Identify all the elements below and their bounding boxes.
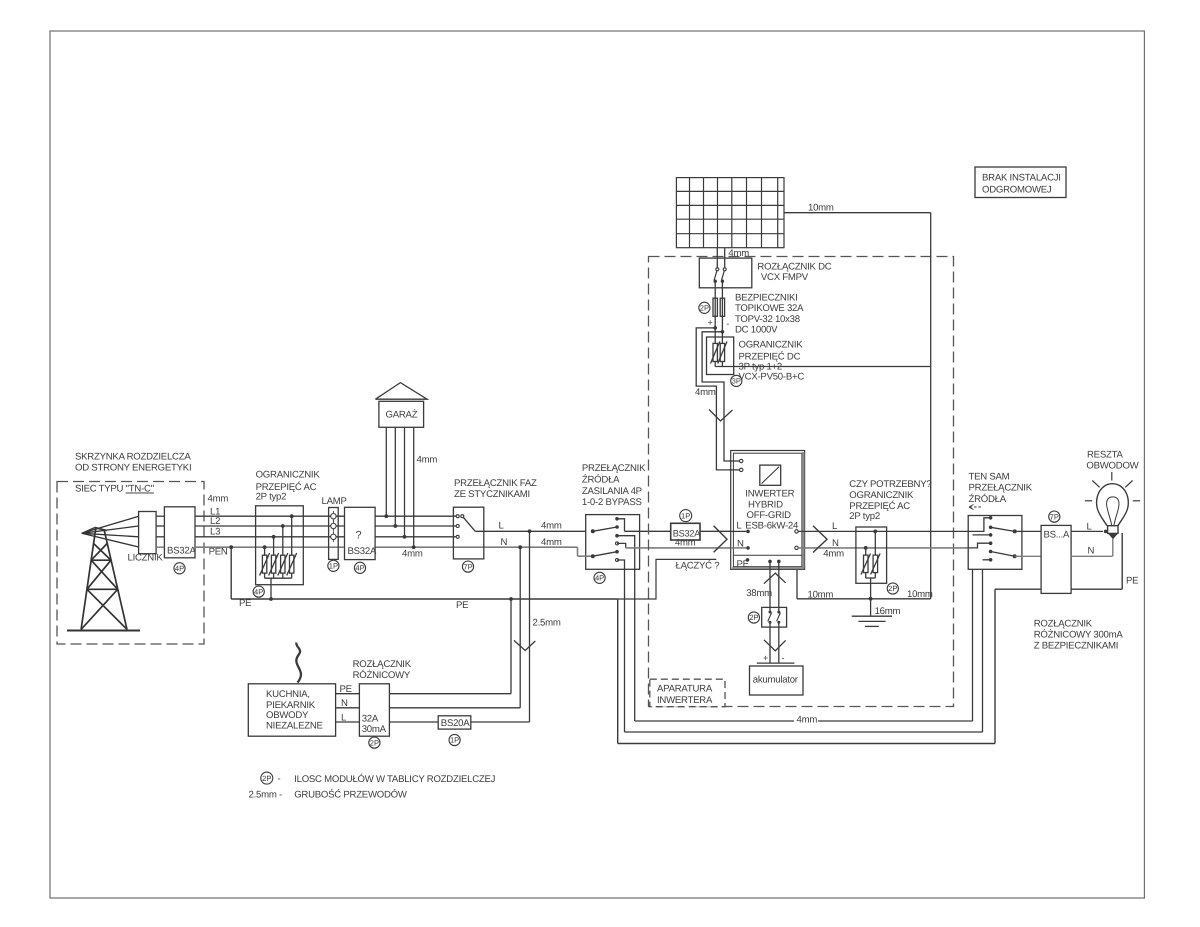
terminal L3 phase selector bbox=[456, 535, 459, 538]
overhead wires from pylon to meter bbox=[82, 516, 139, 547]
svg-text:akumulator: akumulator bbox=[753, 674, 799, 685]
svg-text:2P: 2P bbox=[700, 304, 709, 313]
svg-text:LAMP: LAMP bbox=[322, 496, 347, 507]
bulb filament bbox=[1107, 497, 1119, 526]
wire PV+ into DC SPD bbox=[714, 328, 716, 344]
svg-text:1P: 1P bbox=[681, 511, 690, 520]
svg-text:BS32A: BS32A bbox=[167, 546, 196, 557]
wire varistor common bus bbox=[265, 577, 292, 579]
varistor AC2 V2 slash bbox=[871, 554, 881, 575]
varistor V2 bbox=[271, 555, 275, 573]
arrow continuation (kitchen branch) bbox=[514, 640, 535, 650]
svg-text:BS32A: BS32A bbox=[348, 546, 377, 557]
svg-text:PE: PE bbox=[239, 598, 251, 609]
inverter battery terminal - bbox=[777, 560, 781, 564]
battery switch b2 bbox=[777, 621, 780, 624]
wire L drop AC2 SPD bbox=[874, 531, 876, 555]
wire L BS32A to inverter bbox=[700, 530, 731, 532]
module count 4P (garage breaker) bbox=[354, 562, 365, 573]
inverter U1 HYBRID OFF-GRID box bbox=[731, 451, 805, 570]
note box BRAK INSTALACJI ODGROMOWEJ bbox=[975, 167, 1066, 198]
wire 10mm PV frame earth (top) bbox=[784, 212, 931, 214]
wire L to bulb bbox=[1071, 530, 1103, 532]
PE riser right bbox=[994, 589, 996, 743]
module count 2P (AC2 SPD) bbox=[887, 583, 898, 594]
svg-text:4mm: 4mm bbox=[695, 387, 716, 398]
switch blade L1->L bbox=[463, 517, 475, 531]
module count 7P (2nd switch) bbox=[1049, 511, 1060, 522]
wire bottom run (bypass c6 to 2nd switch) bbox=[625, 731, 983, 733]
svg-text:2P: 2P bbox=[888, 584, 897, 593]
2nd switch contact y517.8 bbox=[989, 516, 993, 520]
varistor DC V2 bbox=[720, 343, 724, 361]
svg-text:2.5mm -: 2.5mm - bbox=[249, 790, 282, 801]
2nd switch blade pole2 bbox=[991, 552, 1015, 557]
wire 10mm earth run (bottom) bbox=[797, 598, 931, 600]
svg-text:PEN: PEN bbox=[209, 547, 228, 558]
2nd switch common pole1 bbox=[1013, 529, 1017, 533]
wire DC- stub into inverter bbox=[730, 469, 740, 471]
DC switch pole2 top contact bbox=[723, 268, 726, 271]
wire L out of phase selector bbox=[475, 530, 586, 532]
svg-text:+: + bbox=[763, 653, 768, 663]
fuse F1 wire through bbox=[714, 298, 716, 316]
svg-text:OD STRONY ENERGETYKI: OD STRONY ENERGETYKI bbox=[75, 463, 191, 474]
svg-text:16mm: 16mm bbox=[875, 606, 901, 617]
wire battery - lower bbox=[778, 622, 780, 663]
garage box bbox=[379, 401, 424, 427]
svg-text:2.5mm: 2.5mm bbox=[533, 618, 561, 629]
bulb base tip bbox=[1108, 533, 1118, 539]
svg-text:4P: 4P bbox=[254, 587, 263, 596]
svg-text:2P: 2P bbox=[749, 613, 758, 622]
PE bus corner down bbox=[617, 599, 619, 744]
wire garage feed 1 bbox=[385, 427, 387, 516]
battery switch b1 bbox=[769, 621, 772, 624]
junction varistor3 tap bbox=[281, 524, 285, 528]
wire riser to 2nd switch contact6 bbox=[982, 560, 984, 732]
wire V1 bottom bbox=[714, 362, 716, 367]
inverter symbol square bbox=[760, 465, 781, 485]
RCD BS..A box (300mA) bbox=[1041, 525, 1071, 593]
meter LICZNIK box bbox=[139, 512, 157, 554]
svg-text:10mm: 10mm bbox=[808, 203, 834, 214]
svg-text:INWERTER: INWERTER bbox=[745, 489, 794, 500]
wire battery + (38mm) bbox=[769, 561, 771, 612]
wire earth electrode (16mm) bbox=[870, 599, 872, 616]
svg-text:N: N bbox=[341, 698, 348, 709]
wire L-in to contact1 (2nd switch) bbox=[968, 518, 990, 532]
DC switch blade1 bbox=[714, 271, 717, 281]
junction L tap AC2 SPD bbox=[873, 530, 877, 534]
bulb L terminal dot bbox=[1104, 530, 1108, 534]
svg-text:KUCHNIA,: KUCHNIA, bbox=[266, 689, 310, 700]
inverter symbol diagonal bbox=[762, 467, 780, 484]
battery switch blade1 bbox=[768, 613, 772, 622]
module count 4P (surge arrester) bbox=[253, 586, 264, 597]
ground symbol bbox=[852, 616, 892, 626]
svg-text:ROZŁĄCZNIK: ROZŁĄCZNIK bbox=[353, 659, 412, 670]
svg-text:TOPIKOWE 32A: TOPIKOWE 32A bbox=[735, 303, 804, 314]
battery disconnector box bbox=[762, 607, 787, 627]
bypass blade pole1 bbox=[593, 527, 617, 531]
svg-text:DC 1000V: DC 1000V bbox=[735, 324, 778, 335]
wire varistor2 drop bbox=[273, 537, 275, 555]
wire PE drop to kitchen RCD bbox=[510, 599, 512, 694]
dashed box aparatura inwertera bbox=[649, 257, 954, 707]
breaker BS32A (inverter feed) box bbox=[671, 523, 700, 540]
PE run under bulb bbox=[1071, 588, 1122, 590]
battery terminal bar bbox=[757, 662, 795, 664]
svg-text:PRZEŁĄCZNIK: PRZEŁĄCZNIK bbox=[582, 463, 646, 474]
svg-text:SKRZYNKA ROZDZIELCZA: SKRZYNKA ROZDZIELCZA bbox=[75, 452, 191, 463]
legend module symbol 2P bbox=[261, 772, 273, 784]
varistor DC V1 slash bbox=[711, 342, 720, 364]
wire varistor4 drop bbox=[291, 516, 293, 555]
wire L2 bbox=[195, 525, 457, 527]
svg-text:4P: 4P bbox=[355, 564, 364, 573]
wire stub L1 meter to BS32A bbox=[156, 515, 164, 517]
svg-text:PE: PE bbox=[1126, 576, 1138, 587]
svg-text:1P: 1P bbox=[329, 562, 338, 571]
svg-text:OGRANICZNIK: OGRANICZNIK bbox=[849, 490, 914, 501]
svg-text:VCX FMPV: VCX FMPV bbox=[761, 272, 809, 283]
wire battery + lower bbox=[769, 622, 771, 663]
lamp L1 indicator circle bbox=[331, 514, 336, 519]
flame symbol over kitchen box bbox=[296, 643, 301, 683]
svg-text:N: N bbox=[832, 538, 839, 549]
svg-text:BEZPIECZNIKI: BEZPIECZNIKI bbox=[735, 293, 798, 304]
svg-text:GARAŻ: GARAŻ bbox=[386, 409, 418, 421]
inverter N-in terminal bbox=[746, 546, 750, 550]
bypass wire contact1 to L out bbox=[617, 519, 625, 532]
module count 3P (DC SPD) bbox=[731, 375, 742, 386]
wire 10mm earth riser (right) bbox=[930, 213, 932, 599]
battery switch blade2 bbox=[777, 613, 781, 622]
svg-text:VCX-PV50-B+C: VCX-PV50-B+C bbox=[739, 372, 805, 383]
svg-text:INWERTERA: INWERTERA bbox=[657, 695, 713, 706]
svg-text:N: N bbox=[1088, 546, 1095, 557]
wire PV+ route to inverter bbox=[696, 328, 739, 470]
bypass wire contact4 to N out bbox=[617, 543, 626, 548]
junction PV- SPD tap bbox=[721, 330, 725, 334]
wire varistor3 drop bbox=[282, 526, 284, 555]
bypass blade pole2 bbox=[593, 552, 617, 557]
varistor DC V2 slash bbox=[718, 342, 727, 364]
junction L to kitchen branch bbox=[528, 529, 532, 533]
breaker BS20A box bbox=[438, 716, 471, 729]
garage house symbol bbox=[375, 383, 427, 400]
svg-text:ROZŁĄCZNIK DC: ROZŁĄCZNIK DC bbox=[757, 262, 831, 273]
wire varistor3 bottom stub bbox=[282, 573, 284, 578]
module count 1P (BS20A) bbox=[449, 734, 460, 745]
wire garage feed 2 bbox=[394, 427, 396, 526]
dashed label box APARATURA INWERTERA bbox=[650, 679, 725, 707]
module count 2P (battery switch) bbox=[748, 612, 759, 623]
wire PV+ panel to DC switch bbox=[716, 248, 718, 269]
junction varistor2 tap bbox=[272, 535, 276, 539]
wire N step into bypass bbox=[577, 547, 579, 556]
varistor DC V1 bbox=[713, 343, 717, 361]
svg-text:38mm: 38mm bbox=[746, 588, 772, 599]
svg-text:4mm: 4mm bbox=[823, 549, 844, 560]
wire L kitchen to BS20A bbox=[389, 721, 438, 723]
svg-text:TOPV-32 10x38: TOPV-32 10x38 bbox=[735, 314, 800, 325]
svg-text:ŁĄCZYĆ ?: ŁĄCZYĆ ? bbox=[676, 559, 720, 571]
wire N into bypass common bbox=[578, 555, 593, 557]
white gap for 4mm label bbox=[794, 713, 818, 724]
inverter battery terminal + bbox=[768, 560, 772, 564]
bypass wire contact3 down (to 2nd switch) bbox=[617, 536, 635, 721]
arrow continuation up (battery pair) bbox=[764, 573, 786, 584]
svg-text:SIEC TYPU "TN-C": SIEC TYPU "TN-C" bbox=[75, 484, 154, 495]
svg-text:ILOSC MODUŁÓW W TABLICY ROZDZ: ILOSC MODUŁÓW W TABLICY ROZDZIELCZEJ bbox=[294, 773, 495, 785]
wire N kitchen stub bbox=[336, 707, 360, 709]
svg-text:PRZEŁĄCZNIK FAZ: PRZEŁĄCZNIK FAZ bbox=[454, 478, 537, 489]
svg-text:OGRANICZNIK: OGRANICZNIK bbox=[739, 340, 804, 351]
DC switch pole2 bottom bbox=[721, 280, 724, 283]
inverter DC+ terminal bbox=[740, 459, 743, 462]
svg-text:3P: 3P bbox=[732, 377, 741, 386]
wire varistor2 bottom stub bbox=[273, 573, 275, 578]
2nd switch contact y559.8 bbox=[989, 558, 993, 562]
wire AC2 SPD to earth line bbox=[870, 578, 872, 599]
wire L drop to kitchen RCD bbox=[529, 531, 531, 722]
svg-text:L2: L2 bbox=[210, 516, 220, 527]
lamp indicator module box bbox=[329, 508, 339, 560]
DC disconnector box (ROZLACZNIK DC) bbox=[699, 258, 752, 288]
battery switch t2 bbox=[777, 611, 780, 614]
module count 4P (bypass switch) bbox=[594, 572, 605, 583]
module count 2P (DC fuses) bbox=[699, 302, 710, 313]
inverter PE terminal bbox=[746, 558, 750, 562]
junction surge arrester on PE bus bbox=[269, 597, 273, 601]
lamp L3 indicator circle bbox=[331, 534, 336, 539]
module count 4P (main breaker) bbox=[174, 563, 185, 574]
svg-text:RÓŻNICOWY 300mA: RÓŻNICOWY 300mA bbox=[1034, 629, 1124, 641]
bulb rays bbox=[1085, 472, 1140, 501]
2nd switch contact y551.5 bbox=[989, 550, 993, 554]
svg-text:2P typ2: 2P typ2 bbox=[849, 511, 880, 522]
phase selector switch box bbox=[453, 507, 483, 559]
inverter DC- terminal bbox=[740, 468, 743, 471]
wire stub L2 meter to BS32A bbox=[156, 525, 164, 527]
wire fuse2 to junction- bbox=[721, 316, 723, 332]
svg-text:?: ? bbox=[356, 530, 362, 542]
svg-text:ROZŁĄCZNIK: ROZŁĄCZNIK bbox=[1034, 619, 1093, 630]
varistor V3 slash bbox=[278, 553, 288, 576]
wire fuse1 to junction+ bbox=[714, 316, 716, 328]
wire varistor1 bottom stub bbox=[264, 573, 266, 578]
kitchen loads box bbox=[248, 684, 335, 736]
bypass pole1 common (L grid) bbox=[591, 529, 595, 533]
svg-text:-: - bbox=[782, 653, 785, 663]
wire stub PEN meter to BS32A bbox=[156, 546, 164, 548]
wire N (PEN) bbox=[195, 546, 578, 548]
junction PEN split to PE bbox=[229, 545, 233, 549]
wire PV- panel to DC switch bbox=[724, 248, 726, 269]
module count 7P (phase selector) bbox=[462, 561, 473, 572]
small dashed arrow <- bbox=[969, 505, 981, 510]
2nd switch blade pole1 bbox=[991, 527, 1015, 531]
wire N 2nd switch to RCD bbox=[1015, 555, 1041, 557]
wire N drop to kitchen RCD bbox=[519, 547, 521, 708]
dashed box SIEC TYPU TN-C bbox=[57, 482, 204, 645]
junction PE to kitchen branch bbox=[509, 597, 513, 601]
svg-text:RÓŻNICOWY: RÓŻNICOWY bbox=[353, 669, 411, 681]
svg-text:RESZTA: RESZTA bbox=[1087, 450, 1123, 461]
breaker BS32A (main) box bbox=[164, 507, 195, 558]
svg-text:4mm: 4mm bbox=[797, 715, 818, 726]
svg-text:4mm: 4mm bbox=[402, 549, 423, 560]
wire PE kitchen to riser bbox=[389, 693, 511, 695]
varistor V4 bbox=[290, 555, 294, 573]
terminal L1 phase selector bbox=[456, 515, 459, 518]
svg-text:4mm: 4mm bbox=[675, 538, 696, 549]
svg-text:30mA: 30mA bbox=[362, 724, 387, 735]
fuse F2 TOPV-32 bbox=[720, 298, 724, 316]
svg-text:NIEZALEZNE: NIEZALEZNE bbox=[266, 720, 323, 731]
inverter bottom strip separator bbox=[733, 554, 802, 556]
wire L BS20A to riser bbox=[471, 721, 530, 723]
junction N to kitchen branch bbox=[518, 545, 522, 549]
svg-text:10mm: 10mm bbox=[808, 589, 834, 600]
wire L3 bbox=[195, 536, 457, 538]
svg-text:2P: 2P bbox=[370, 738, 379, 747]
svg-text:4mm: 4mm bbox=[208, 494, 229, 505]
svg-text:N: N bbox=[501, 537, 508, 548]
wire L1 bbox=[195, 515, 456, 517]
bypass contact at y535.7 bbox=[615, 534, 619, 538]
solar panel PV array bbox=[676, 178, 784, 248]
svg-text:7P: 7P bbox=[1050, 512, 1059, 521]
junction garage feed 4 bbox=[412, 545, 416, 549]
varistor V1 slash bbox=[260, 553, 270, 576]
svg-text:ZE STYCZNIKAMI: ZE STYCZNIKAMI bbox=[454, 489, 530, 500]
wire surge arrester to PE bus bbox=[270, 578, 272, 599]
2nd switch contact y527.3 bbox=[989, 526, 993, 530]
DC switch blade2 bbox=[722, 271, 725, 281]
varistor V2 slash bbox=[269, 553, 279, 576]
junction on 10mm earth line bbox=[869, 597, 873, 601]
svg-text:CZY POTRZEBNY?: CZY POTRZEBNY? bbox=[849, 479, 931, 490]
varistor AC2 V1 bbox=[864, 555, 869, 573]
junction varistor4 tap bbox=[290, 514, 294, 518]
surge arrester AC box (4 varistors) bbox=[256, 506, 304, 585]
junction PV+ SPD tap bbox=[713, 326, 717, 330]
bypass pole2 common (N grid) bbox=[591, 554, 595, 558]
fuse F2 wire through bbox=[721, 298, 723, 316]
surge arrester AC2 box bbox=[856, 527, 887, 583]
wire battery - (38mm) bbox=[778, 561, 780, 612]
svg-text:1P: 1P bbox=[450, 736, 459, 745]
svg-text:BRAK INSTALACJI: BRAK INSTALACJI bbox=[982, 173, 1061, 184]
wire PV- to fuse2 bbox=[721, 281, 723, 298]
svg-text:GRUBOŚĆ PRZEWODÓW: GRUBOŚĆ PRZEWODÓW bbox=[294, 788, 408, 800]
junction garage feed 2 bbox=[393, 524, 397, 528]
lamp L2 indicator circle bbox=[331, 523, 336, 528]
wire riser3 to contact3 (2nd switch) bbox=[973, 534, 991, 536]
svg-text:4mm: 4mm bbox=[541, 537, 562, 548]
RCD kitchen box (30mA) bbox=[359, 684, 389, 736]
wire L stub into inverter bbox=[731, 530, 747, 532]
bypass switch box 1-0-2 bbox=[586, 515, 640, 570]
wire N-in to contact4 (2nd switch) bbox=[968, 543, 990, 548]
varistor V4 slash bbox=[287, 553, 297, 576]
svg-text:7P: 7P bbox=[463, 562, 472, 571]
wire AC2 V2 bottom bbox=[874, 573, 876, 578]
bypass contact at y527.0 bbox=[615, 525, 619, 529]
wire N inverter out to 2nd switch bbox=[798, 547, 968, 549]
arrow continuation down (battery pair) bbox=[764, 640, 786, 651]
2nd switch contact y543.2 bbox=[989, 541, 993, 545]
junction garage feed 1 bbox=[384, 514, 388, 518]
svg-text:BS20A: BS20A bbox=[441, 718, 470, 729]
svg-text:OGRANICZNIK: OGRANICZNIK bbox=[256, 470, 321, 481]
inverter L-in terminal bbox=[746, 530, 750, 534]
fuse F1 TOPV-32 bbox=[713, 298, 717, 316]
wire N from bulb to RCD bbox=[1071, 555, 1112, 557]
bypass contact at y551.7 bbox=[615, 550, 619, 554]
wire V2 bottom bbox=[721, 362, 723, 367]
2nd switch common pole2 bbox=[1013, 554, 1017, 558]
connector chevron (inverter output) bbox=[813, 526, 827, 553]
wire N stub into inverter bbox=[731, 547, 747, 549]
module count 1P (inverter feed breaker) bbox=[680, 510, 692, 522]
PE run to RCD (right) bbox=[995, 588, 1041, 590]
PE bus bbox=[231, 598, 618, 600]
svg-text:ZASILANIA 4P: ZASILANIA 4P bbox=[582, 486, 642, 497]
bulb base bbox=[1108, 526, 1118, 534]
terminal L2 phase selector bbox=[456, 525, 459, 528]
svg-text:ŹRÓDŁA: ŹRÓDŁA bbox=[582, 473, 620, 485]
wire L 2nd switch to RCD bbox=[1015, 530, 1041, 532]
svg-text:N: N bbox=[737, 538, 744, 549]
wire DC+ stub into inverter bbox=[730, 460, 740, 462]
svg-text:-: - bbox=[278, 774, 281, 785]
wire garage feed 3 bbox=[404, 427, 406, 537]
wire N out bypass to inverter bbox=[626, 547, 731, 549]
svg-text:ESB-6kW-24: ESB-6kW-24 bbox=[745, 520, 799, 531]
svg-text:ŹRÓDŁA: ŹRÓDŁA bbox=[969, 493, 1007, 505]
bypass wire contact6 down (to 2nd switch) bbox=[617, 560, 625, 732]
wire PEN down to PE bus bbox=[230, 547, 232, 599]
svg-text:10mm: 10mm bbox=[907, 589, 933, 600]
svg-text:4P: 4P bbox=[595, 574, 604, 583]
module count 1P (lamp) bbox=[328, 560, 339, 571]
bypass contact at y518.8 bbox=[615, 517, 619, 521]
varistor V3 bbox=[281, 555, 285, 573]
inverter N-out terminal bbox=[795, 546, 798, 549]
battery (akumulator) box bbox=[750, 666, 804, 695]
bypass contact open y560 bbox=[616, 559, 619, 562]
svg-text:2P typ2: 2P typ2 bbox=[256, 492, 287, 503]
breaker '?' BS32A box bbox=[345, 507, 376, 559]
wire AC2 V1 bottom bbox=[865, 573, 867, 578]
svg-text:PRZEPIĘĆ AC: PRZEPIĘĆ AC bbox=[849, 500, 910, 512]
PE riser at bulb bbox=[1121, 533, 1123, 589]
bulb glass outline bbox=[1097, 484, 1129, 526]
wire PV+ to fuse1 bbox=[714, 281, 716, 298]
svg-text:Z BEZPIECZNIKAMI: Z BEZPIECZNIKAMI bbox=[1034, 641, 1119, 652]
svg-text:-: - bbox=[726, 318, 729, 328]
svg-text:PE: PE bbox=[340, 684, 352, 695]
connector chevron (bypass to inverter) bbox=[714, 526, 727, 553]
svg-text:OBWODOW: OBWODOW bbox=[1086, 461, 1139, 472]
wire L out bypass to BS32A bbox=[625, 530, 671, 532]
junction varistor1 tap bbox=[263, 545, 267, 549]
varistor AC2 V1 slash bbox=[861, 554, 871, 575]
